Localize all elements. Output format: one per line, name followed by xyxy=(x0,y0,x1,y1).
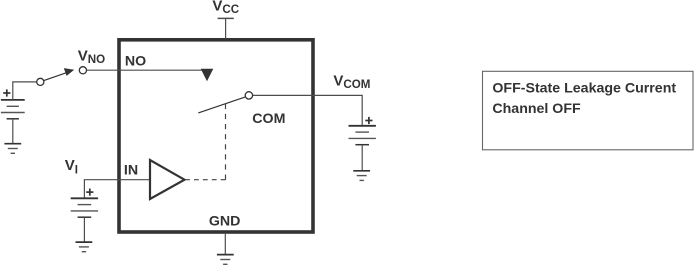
wire COM to V_COM battery xyxy=(253,95,363,125)
svg-text:VCC: VCC xyxy=(212,0,239,16)
wire B1 to switch pole xyxy=(13,82,37,100)
ground (B1) xyxy=(4,144,21,154)
dashed control line: vertical run up to switch blade xyxy=(225,104,227,180)
wire B1 to ground xyxy=(12,119,14,144)
svg-text:OFF-State Leakage Current: OFF-State Leakage Current xyxy=(492,80,676,96)
svg-text:VI: VI xyxy=(65,157,78,177)
internal switch blade xyxy=(198,97,245,113)
svg-text:VNO: VNO xyxy=(78,48,105,66)
ground (GND pin) xyxy=(217,255,234,265)
wire B2 to ground xyxy=(83,217,85,242)
COM pole circle xyxy=(245,92,252,99)
svg-text:VCOM: VCOM xyxy=(333,73,370,91)
wire B3 to ground xyxy=(361,145,363,171)
svg-text:Channel OFF: Channel OFF xyxy=(492,101,581,117)
ground (B2) xyxy=(76,242,93,252)
battery B1 (VNO source) plus sign xyxy=(3,89,10,96)
ground (B3) xyxy=(353,171,370,181)
svg-text:GND: GND xyxy=(209,214,241,230)
wire V_NO to NO contact xyxy=(87,69,202,71)
switch S1 pole circle xyxy=(37,78,44,85)
dashed control line: horizontal run from buffer output xyxy=(185,179,226,181)
NO contact arrow xyxy=(201,69,214,81)
battery B2 (VI source) plus sign xyxy=(86,189,93,196)
VCC terminal bar xyxy=(218,17,234,19)
battery B2 (VI source) xyxy=(71,198,98,217)
annotation box xyxy=(483,71,694,150)
wire VCC to box xyxy=(225,18,227,39)
buffer driver A1 xyxy=(150,160,185,199)
wire battery B2 to IN buffer xyxy=(84,180,150,199)
battery B3 (VCOM load) xyxy=(349,126,376,145)
battery B3 (VCOM load) plus sign xyxy=(365,117,372,124)
svg-text:COM: COM xyxy=(252,111,285,127)
switch S1 blade xyxy=(44,73,67,81)
switch S1 arrowhead xyxy=(64,68,74,76)
svg-text:NO: NO xyxy=(125,54,146,70)
battery B1 (VNO source) xyxy=(1,100,25,119)
DUT box U1 xyxy=(119,40,313,232)
wire GND pin to ground xyxy=(224,234,226,255)
terminal circle V_NO xyxy=(79,67,86,74)
svg-text:IN: IN xyxy=(124,163,138,179)
